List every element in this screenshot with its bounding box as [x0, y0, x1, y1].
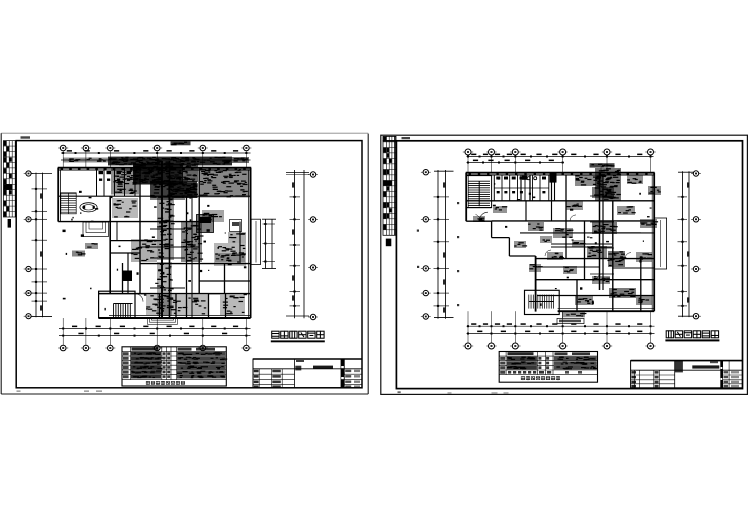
sheet1 vertical duct 2	[187, 196, 193, 318]
sheet1 cluster mid-left	[131, 239, 157, 262]
sheet1 legend table	[122, 347, 227, 386]
sheet1 right grid bubbles	[308, 172, 318, 320]
sheet1 title text	[272, 331, 325, 339]
sheet2 toilet block	[494, 175, 549, 201]
sheet1 bottom rooms cluster	[146, 295, 208, 315]
sheet1 toilet fixtures cluster	[111, 169, 139, 195]
sheet1 top wall units	[61, 167, 246, 170]
sheet2 left grid bubbles	[421, 170, 431, 320]
sheet1 annotation cluster top-center	[133, 164, 184, 185]
sheet2 bottom dimension lines	[467, 323, 655, 334]
sheet1 lobby and stair S2	[99, 291, 143, 318]
sheet2 duct label top	[590, 163, 615, 172]
sheet2 annotation cluster	[608, 251, 626, 267]
sheet2 plan outer walls	[466, 173, 655, 312]
sheet2 dark duct top	[550, 173, 557, 201]
sheet2 annotation cluster	[547, 252, 564, 260]
sheet2 annotation cluster	[563, 266, 577, 274]
sheet2 annotation cluster	[563, 312, 586, 318]
sheet1 left grid bubbles	[24, 171, 34, 319]
sheet1 top grid bubbles	[58, 145, 251, 168]
sheet2 bottom grid bubbles	[463, 311, 656, 349]
sheet2 annotation cluster	[592, 187, 615, 198]
sheet2 door arcs	[545, 215, 631, 280]
sheet2 balcony protrusion	[655, 218, 667, 269]
sheet1 cluster room213	[228, 232, 246, 243]
sheet2 entry below stairs	[476, 212, 489, 221]
sheet1 oval table	[80, 203, 97, 212]
sheet2 left dimension assembly	[434, 170, 454, 319]
sheet2 annotation cluster	[592, 222, 618, 234]
sheet1 duct annotation column	[157, 198, 175, 260]
sheet2 annotation cluster	[640, 219, 658, 228]
sheet1 entrance steps	[148, 318, 178, 324]
sheet1 partition walls	[99, 168, 251, 318]
sheet1 annotation cluster top-center2	[150, 181, 197, 198]
sheet1 title underline	[271, 340, 325, 342]
sheet2 annotation cluster	[627, 175, 643, 184]
sheet2 partition walls	[466, 175, 654, 311]
sheet1 equipment table symbol	[230, 220, 242, 232]
sheet2 annotation cluster	[566, 201, 583, 210]
sheet1 cluster room211	[112, 198, 138, 218]
sheet1 side dimension pair	[262, 219, 276, 268]
sheet2 right dimension assembly	[678, 171, 694, 317]
sheet1 top annotation band	[61, 157, 251, 166]
sheet2 annotation cluster	[587, 246, 607, 258]
sheet2 annotation cluster	[617, 206, 636, 215]
sheet1 porch canopy	[83, 222, 109, 237]
sheet1 bottom dimension lines	[59, 326, 251, 337]
sheet2 annotation cluster	[648, 186, 661, 195]
sheet2 annotation cluster	[572, 240, 586, 247]
sheet2 stairwell	[466, 176, 491, 208]
sheet2 annotation cluster	[473, 216, 485, 222]
sheet1 dark square room mark	[123, 271, 133, 282]
sheet2 revision strip	[383, 136, 396, 246]
sheet2 top dimension line 1	[467, 154, 654, 158]
sheet1 bottom right cluster	[220, 295, 245, 315]
sheet1 balcony protrusion	[251, 219, 260, 264]
sheet2 title underline	[665, 339, 719, 341]
sheet1 margin stamp text	[21, 136, 31, 138]
sheet1 stair S1	[61, 193, 76, 214]
sheet2 top grid bubbles	[463, 149, 656, 172]
sheet2 top dimension line 2	[467, 160, 565, 164]
sheet1 cluster mid	[181, 222, 204, 262]
sheet1 annotation cluster duct-side	[168, 183, 198, 198]
sheet2 stair S2 block	[525, 290, 560, 314]
sheet1 plan outer walls	[58, 168, 251, 318]
sheet1 scattered small marks	[63, 171, 247, 312]
sheet1 vertical duct main	[150, 161, 185, 318]
sheet2 annotation cluster	[636, 296, 652, 305]
sheet2 outer frame	[381, 135, 748, 394]
sheet2 annotation cluster	[609, 288, 636, 298]
sheet2 annotation cluster	[540, 236, 552, 243]
sheet2 title text	[666, 330, 719, 338]
sheet2 margin stamp text	[402, 137, 411, 139]
sheet1 plot stamps	[17, 390, 103, 392]
sheet1 bottom grid bubbles	[58, 318, 251, 351]
sheet2 annotation cluster	[595, 168, 621, 201]
sheet1 furniture cluster top-right	[200, 169, 250, 198]
sheet2 annotation cluster	[575, 296, 593, 305]
sheet2 legend table	[499, 352, 597, 383]
sheet2 plot stamps	[398, 391, 509, 394]
sheet2 inner top border extension	[383, 140, 397, 142]
sheet1 revision strip	[3, 141, 15, 228]
sheet1 duct lower cluster	[157, 262, 174, 316]
sheet2 annotation cluster	[553, 228, 573, 238]
sheet2 annotation cluster	[514, 241, 527, 248]
sheet2 annotation cluster	[528, 222, 544, 231]
sheet1 drawing name annotation	[171, 141, 191, 145]
sheet1 small outside labels	[72, 243, 98, 257]
sheet1 annotation cluster top-center3	[182, 164, 198, 182]
sheet2 annotation cluster	[493, 206, 507, 213]
sheet2 vertical duct main	[590, 175, 614, 290]
sheet2 annotation cluster	[636, 252, 653, 262]
sheet2 title block	[631, 361, 743, 388]
sheet2 top wall units	[469, 172, 648, 175]
sheet1 equipment dark box	[197, 215, 214, 233]
sheet2 small outside marks	[417, 202, 459, 306]
sheet1 right dimension assembly	[286, 170, 309, 318]
sheet2 right grid bubbles	[691, 171, 701, 319]
sheet2 annotation cluster	[592, 276, 610, 284]
sheet1 cluster room212	[202, 210, 224, 222]
sheet1 title block	[253, 359, 362, 388]
sheet1 left dimension assembly	[27, 173, 52, 318]
sheet2 annotation cluster	[575, 175, 603, 186]
sheet1 cluster corridor-east	[215, 253, 246, 262]
sheet2 annotation cluster	[529, 264, 543, 272]
sheet2 callout box	[557, 311, 584, 323]
sheet2 inner frame	[396, 141, 742, 389]
sheet1 cluster right-mid	[214, 243, 246, 266]
sheet1 outer frame	[1, 133, 368, 394]
sheet1 toilet partitions	[58, 168, 250, 197]
sheet2 scattered small marks	[493, 178, 652, 306]
sheet1 inner frame	[16, 141, 362, 388]
sheet1 top dimension line 1	[61, 150, 251, 154]
